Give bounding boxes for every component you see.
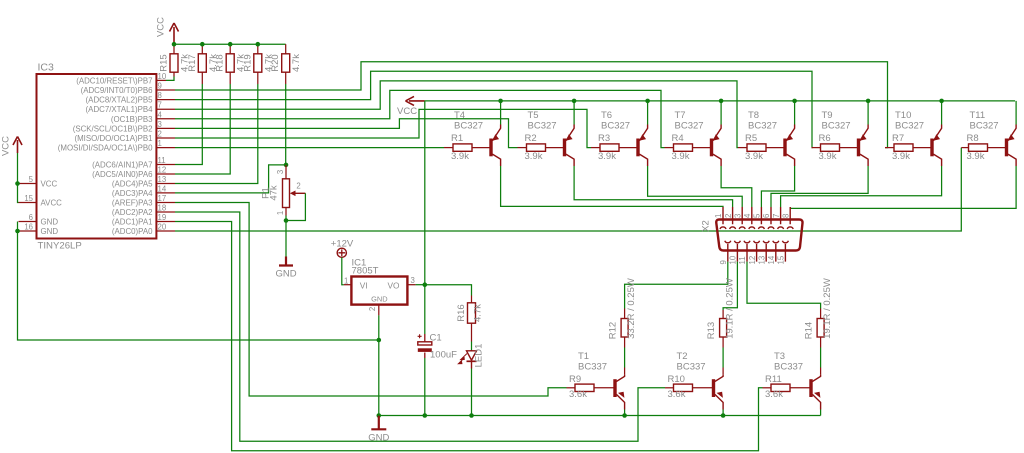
- svg-text:R2: R2: [525, 133, 537, 144]
- svg-text:R13: R13: [706, 322, 717, 339]
- svg-text:8: 8: [158, 91, 162, 100]
- svg-text:12: 12: [158, 166, 167, 175]
- resistor R16 bottom pin: [471, 323, 473, 341]
- svg-text:2: 2: [368, 307, 377, 311]
- pin 11 stub PA7: [156, 164, 175, 166]
- resistor R19 bottom pin: [257, 72, 259, 84]
- pin 7 stub PB4: [156, 108, 175, 110]
- svg-text:3.6k: 3.6k: [765, 389, 783, 400]
- resistor R13 body: [720, 319, 727, 338]
- svg-text:4.7k: 4.7k: [291, 54, 302, 72]
- wire VO node to R16: [425, 285, 472, 296]
- svg-text:2: 2: [296, 182, 300, 191]
- junction VO node: [423, 282, 428, 287]
- pin 6 stub GND: [19, 221, 37, 223]
- svg-text:BC327: BC327: [601, 121, 630, 132]
- svg-text:TINY26LP: TINY26LP: [38, 241, 82, 252]
- pin 14 stub PA4: [156, 192, 175, 194]
- resistor R1 3.9k: [453, 144, 472, 151]
- svg-text:VCC: VCC: [156, 17, 167, 37]
- svg-text:3.9k: 3.9k: [672, 151, 690, 162]
- wire IC1 GND down: [378, 315, 380, 415]
- transistor T10 BC327 base bar: [930, 139, 933, 157]
- svg-text:AVCC: AVCC: [41, 199, 63, 208]
- svg-text:T6: T6: [601, 110, 612, 121]
- svg-text:17: 17: [158, 194, 167, 203]
- resistor R14 bottom pin: [820, 337, 822, 348]
- svg-text:R8: R8: [967, 133, 979, 144]
- junction VCC rail at R17: [200, 42, 205, 47]
- wire VCC rail to T9 emitter: [867, 101, 869, 125]
- resistor R17 top pin: [201, 44, 203, 54]
- transistor T7 BC327 base bar: [710, 139, 713, 157]
- wire VCC arrow to pin5: [17, 153, 19, 184]
- svg-text:5: 5: [753, 213, 762, 218]
- wire VCC feed from 7805 VO up to rail: [424, 101, 426, 285]
- transistor T2 BC337 base bar: [712, 379, 715, 397]
- svg-text:(ADC9/INT0/T0)PB6: (ADC9/INT0/T0)PB6: [81, 86, 154, 95]
- transistor T1 collector diagonal: [616, 375, 624, 382]
- svg-text:T5: T5: [528, 110, 539, 121]
- wire T10 collector to X2 pin 7: [781, 166, 942, 207]
- transistor T1 emitter diagonal: [616, 394, 624, 409]
- svg-text:19.1R / 0.25W: 19.1R / 0.25W: [822, 278, 833, 339]
- potentiometer P1 pin 3: [285, 165, 287, 179]
- wire T9 collector to X2 pin 6: [771, 166, 868, 207]
- resistor R8 left pin: [961, 147, 968, 149]
- svg-text:T11: T11: [970, 110, 986, 121]
- junction node PA4 at P1 pin3: [284, 163, 289, 168]
- resistor R15 top pin: [173, 44, 175, 54]
- resistor R2 3.9k: [527, 144, 546, 151]
- wire net PB2 to R2: [175, 119, 518, 148]
- svg-text:15: 15: [24, 194, 33, 203]
- svg-text:R19: R19: [242, 54, 253, 71]
- capacitor C1 100uF polarized: [424, 334, 426, 358]
- wire X2 pin 9 to R12: [625, 262, 728, 309]
- resistor R6 left pin: [812, 147, 821, 149]
- wire ground rail: [379, 415, 821, 417]
- svg-text:R5: R5: [745, 133, 757, 144]
- svg-text:(ADC4)PA5: (ADC4)PA5: [112, 180, 153, 189]
- wire VCC rail to T7 emitter: [720, 101, 722, 125]
- resistor R7 left pin: [885, 147, 894, 149]
- pin 12 stub PA6: [156, 173, 175, 175]
- svg-text:(ADC6/AIN1)PA7: (ADC6/AIN1)PA7: [92, 161, 152, 170]
- svg-text:1: 1: [158, 139, 162, 148]
- svg-text:(ADC8/XTAL2)PB5: (ADC8/XTAL2)PB5: [86, 96, 154, 105]
- svg-text:BC327: BC327: [454, 121, 483, 132]
- potentiometer P1 pin 1: [285, 208, 287, 216]
- resistor R6 3.9k: [821, 144, 840, 151]
- transistor T9 emitter: [860, 125, 868, 141]
- svg-text:3.9k: 3.9k: [892, 151, 910, 162]
- svg-text:R12: R12: [607, 322, 618, 339]
- wire T2 emitter to ground rail: [722, 410, 724, 416]
- potentiometer P1 wiper arrow pin 2: [293, 192, 306, 194]
- supply +12V symbol: [337, 248, 346, 257]
- svg-text:LED1: LED1: [474, 344, 485, 368]
- wire net PB0 to R1: [175, 147, 444, 149]
- svg-text:X2: X2: [701, 220, 712, 232]
- resistor R18 bottom pin: [229, 72, 231, 84]
- junction P1 pin1: [284, 218, 289, 223]
- transistor T1 emitter arrow: [618, 392, 624, 398]
- junction ground rail at T2 emitter: [721, 413, 726, 418]
- transistor T5 collector: [566, 154, 574, 166]
- pin 2 stub PB1: [156, 137, 175, 139]
- LED1 emission arrows: [458, 354, 467, 364]
- resistor R17 4.7k: [198, 54, 206, 72]
- resistor R18 4.7k: [226, 54, 234, 72]
- resistor R17 bottom pin: [201, 72, 203, 84]
- connector X2 pin 15 contact: [782, 241, 788, 262]
- svg-text:18: 18: [158, 204, 167, 213]
- wire R10 to T2 collector chain: [722, 348, 724, 368]
- svg-text:(ADC1)PA1: (ADC1)PA1: [112, 218, 153, 227]
- svg-text:6: 6: [762, 214, 771, 218]
- transistor T3 collector pin: [820, 368, 822, 375]
- transistor T1 BC337 base bar: [613, 379, 616, 397]
- svg-text:(ADC0)PA0: (ADC0)PA0: [112, 227, 153, 236]
- junction VCC rail at T7 emitter: [719, 99, 724, 104]
- junction ground rail at IC1 GND: [377, 413, 382, 418]
- svg-text:3.9k: 3.9k: [745, 151, 763, 162]
- svg-text:1: 1: [344, 277, 348, 286]
- wire VCC rail to T5 emitter: [573, 101, 575, 125]
- svg-text:R18: R18: [215, 54, 226, 71]
- svg-text:(ADC3)PA4: (ADC3)PA4: [112, 189, 153, 198]
- svg-text:R15: R15: [159, 54, 170, 71]
- voltage regulator IC1 7805T box: [351, 277, 407, 305]
- svg-text:3: 3: [158, 120, 162, 129]
- svg-text:GND: GND: [41, 218, 59, 227]
- svg-text:3.9k: 3.9k: [525, 151, 543, 162]
- svg-text:1: 1: [714, 214, 723, 218]
- svg-text:R16: R16: [456, 304, 467, 321]
- wire R15 to PB7 pin 10: [166, 77, 174, 81]
- svg-text:(AREF)PA3: (AREF)PA3: [112, 199, 153, 208]
- svg-text:T7: T7: [675, 110, 686, 121]
- transistor T5 BC327 base bar: [563, 139, 566, 157]
- connector X2 pin 9 contact: [725, 241, 731, 262]
- svg-text:R17: R17: [187, 54, 198, 71]
- connector X2 pin 1 contact: [720, 207, 726, 229]
- wire VO node to C1: [424, 285, 426, 334]
- supply VCC symbol (arrow pointing left at rail): [406, 96, 425, 105]
- IC1 pin 2 GND stub: [378, 305, 380, 316]
- resistor R1 left pin: [444, 147, 453, 149]
- junction VCC rail at T8 emitter: [792, 99, 797, 104]
- wire VCC rail to T10 emitter: [941, 101, 943, 125]
- svg-text:R1: R1: [451, 133, 463, 144]
- ground symbol at P1: [279, 257, 293, 266]
- svg-text:R14: R14: [803, 322, 814, 339]
- wire +12V to IC1 VI: [342, 257, 344, 284]
- resistor R20 top pin: [285, 44, 287, 54]
- svg-text:10: 10: [158, 72, 167, 81]
- supply VCC symbol (top): [170, 23, 179, 44]
- wire R18 to PA6 pin 12: [175, 84, 230, 174]
- transistor T1 base pin: [594, 387, 614, 389]
- connector X2 DB15 outline: [716, 220, 802, 251]
- junction VCC rail at R18: [228, 42, 233, 47]
- wire GND pin6 to pin16: [17, 222, 19, 232]
- svg-text:GND: GND: [368, 433, 389, 444]
- pin 19 stub PA1: [156, 221, 175, 223]
- svg-text:2: 2: [158, 130, 162, 139]
- potentiometer P1 47k body: [283, 179, 290, 208]
- svg-text:(OC1B)PB3: (OC1B)PB3: [111, 115, 153, 124]
- wire T3 emitter to ground rail: [820, 410, 822, 416]
- transistor T9 collector: [860, 154, 868, 166]
- svg-text:R3: R3: [598, 133, 610, 144]
- svg-text:BC327: BC327: [822, 121, 851, 132]
- pin 18 stub PA2: [156, 211, 175, 213]
- svg-text:(SCK/SCL/OC1B\)PB2: (SCK/SCL/OC1B\)PB2: [73, 124, 153, 133]
- wire P1 pin1 short: [285, 216, 287, 221]
- svg-text:3.6k: 3.6k: [668, 389, 686, 400]
- pin 5 stub VCC: [19, 183, 37, 185]
- svg-text:13: 13: [757, 256, 766, 265]
- wire T8 collector to X2 pin 5: [761, 166, 794, 207]
- wire T5 collector to X2 pin 2: [574, 166, 733, 207]
- transistor T2 emitter diagonal: [715, 394, 723, 409]
- svg-text:3: 3: [276, 170, 285, 174]
- transistor T11 collector: [1008, 154, 1016, 166]
- resistor R8 3.9k: [969, 144, 988, 151]
- ground symbol at IC1: [371, 416, 386, 430]
- svg-text:BC337: BC337: [677, 361, 706, 372]
- connector X2 pin 7 contact: [778, 207, 784, 229]
- svg-text:7: 7: [772, 214, 781, 218]
- resistor R16 4.7k: [468, 303, 476, 323]
- svg-text:4.7k: 4.7k: [473, 304, 484, 322]
- resistor R13 top pin: [722, 310, 724, 319]
- svg-text:4: 4: [158, 110, 163, 119]
- transistor T4 emitter arrow: [493, 134, 500, 140]
- resistor R14 top pin: [820, 309, 822, 319]
- svg-text:(MISO/DO/OC1A)PB1: (MISO/DO/OC1A)PB1: [74, 134, 152, 143]
- svg-text:BC337: BC337: [578, 361, 607, 372]
- transistor T3 emitter diagonal: [812, 394, 820, 409]
- transistor T6 base pin: [619, 147, 637, 149]
- svg-text:R7: R7: [892, 133, 904, 144]
- transistor T11 base pin: [988, 147, 1006, 149]
- wire IC GND down and right to 7805 GND: [18, 231, 379, 340]
- junction VCC rail at T6 emitter: [645, 99, 650, 104]
- pin 10 stub PB7: [156, 79, 166, 81]
- resistor R11 3.6k: [771, 384, 790, 391]
- svg-text:R20: R20: [270, 54, 281, 71]
- resistor R3 3.9k: [600, 144, 619, 151]
- wire P1 wiper to pin 1: [286, 193, 305, 220]
- resistor R14 body: [817, 319, 824, 338]
- connector X2 pin 6 contact: [768, 207, 774, 229]
- wire net PB6 to R7: [175, 62, 888, 148]
- svg-text:R11: R11: [765, 374, 782, 385]
- connector X2 pin 10 contact: [734, 241, 740, 262]
- junction VCC rail at T4 emitter: [498, 99, 503, 104]
- svg-text:100uF: 100uF: [430, 350, 457, 361]
- pin 4 stub PB3: [156, 118, 175, 120]
- transistor T10 emitter arrow: [934, 134, 941, 140]
- pin 15 stub AVCC: [19, 202, 37, 204]
- resistor R4 3.9k: [674, 144, 693, 151]
- svg-text:13: 13: [158, 175, 167, 184]
- svg-text:(ADC5/AIN0)PA6: (ADC5/AIN0)PA6: [92, 170, 153, 179]
- pin 8 stub PB5: [156, 99, 175, 101]
- transistor T1 collector pin: [624, 368, 626, 375]
- svg-text:BC327: BC327: [528, 121, 557, 132]
- pin 20 stub PA0: [156, 230, 175, 232]
- resistor R9 3.6k: [575, 384, 594, 391]
- transistor T6 emitter arrow: [640, 134, 647, 140]
- transistor T11 emitter arrow: [1008, 134, 1015, 140]
- resistor R19 4.7k: [254, 54, 262, 72]
- wire net PA2 to R10: [175, 212, 665, 441]
- wire R20 down to node PA4: [285, 84, 287, 165]
- transistor T7 emitter: [713, 125, 721, 141]
- transistor T10 emitter: [933, 125, 941, 141]
- svg-text:GND: GND: [275, 269, 296, 280]
- IC1 pin 3 VO stub: [407, 284, 415, 286]
- svg-text:11: 11: [158, 156, 166, 165]
- transistor T8 emitter: [786, 125, 794, 141]
- svg-text:R4: R4: [672, 133, 684, 144]
- svg-text:VCC: VCC: [1, 136, 12, 156]
- wire VCC rail to T6 emitter: [647, 101, 649, 125]
- wire VO stub to node: [416, 284, 425, 286]
- connector X2 pin 5 contact: [758, 207, 764, 229]
- wire top VCC rail: [174, 43, 286, 45]
- svg-text:3.9k: 3.9k: [451, 151, 469, 162]
- svg-text:GND: GND: [371, 295, 387, 304]
- wire VCC rail to T8 emitter: [794, 101, 796, 125]
- wire net PA3 to R9: [175, 203, 567, 397]
- svg-text:BC337: BC337: [774, 361, 803, 372]
- svg-text:(ADC10/RESET\)PB7: (ADC10/RESET\)PB7: [76, 76, 152, 85]
- wire T1 emitter to ground rail: [624, 410, 626, 416]
- svg-text:11: 11: [738, 256, 747, 264]
- svg-text:9: 9: [719, 260, 728, 264]
- svg-text:VO: VO: [388, 281, 401, 291]
- svg-text:16: 16: [24, 223, 33, 232]
- svg-text:3.9k: 3.9k: [598, 151, 616, 162]
- junction ground rail at C1: [423, 413, 428, 418]
- transistor T7 base pin: [693, 147, 711, 149]
- wire R19 to PA5 pin 13: [175, 84, 258, 184]
- LED LED1: [467, 351, 477, 360]
- junction VCC rail at T9 emitter: [866, 99, 871, 104]
- transistor T5 emitter arrow: [566, 134, 573, 140]
- transistor T9 BC327 base bar: [857, 139, 860, 157]
- transistor T4 emitter: [492, 125, 500, 141]
- transistor T2 base pin: [693, 387, 713, 389]
- svg-text:BC327: BC327: [895, 121, 924, 132]
- wire net PB5 to R6: [175, 71, 812, 147]
- supply VCC symbol (left): [13, 137, 22, 154]
- resistor R5 left pin: [738, 147, 747, 149]
- svg-text:R6: R6: [819, 133, 831, 144]
- transistor T8 collector: [786, 154, 794, 166]
- svg-text:VI: VI: [360, 281, 368, 291]
- svg-text:C1: C1: [430, 333, 442, 344]
- connector X2 pin 4 contact: [749, 207, 755, 229]
- IC IC3 TINY26LP body: [37, 74, 157, 239]
- transistor T8 BC327 base bar: [783, 139, 786, 157]
- transistor T5 base pin: [546, 147, 564, 149]
- svg-text:GND: GND: [41, 227, 59, 236]
- svg-text:VCC: VCC: [397, 106, 417, 117]
- transistor T6 BC327 base bar: [636, 139, 639, 157]
- wire T11 collector to X2 pin 8: [790, 166, 1016, 208]
- wire net PA1 to R11: [175, 222, 763, 451]
- pin 13 stub PA5: [156, 183, 175, 185]
- wire VCC rail: [425, 100, 1015, 102]
- transistor T4 BC327 base bar: [489, 139, 492, 157]
- transistor T11 emitter: [1008, 125, 1016, 141]
- connector X2 pin 3 contact: [739, 207, 745, 229]
- wire net PB1 to R3: [175, 109, 591, 147]
- transistor T3 base pin: [790, 387, 810, 389]
- svg-text:33.2R / 0.25W: 33.2R / 0.25W: [626, 278, 637, 339]
- svg-text:20: 20: [158, 223, 167, 232]
- pin 3 stub PB2: [156, 127, 175, 129]
- wire net PB4 to R5: [175, 81, 738, 148]
- resistor R4 left pin: [665, 147, 674, 149]
- transistor T6 collector: [639, 154, 647, 166]
- wire C1 to ground rail: [424, 358, 426, 416]
- resistor R19 top pin: [257, 44, 259, 54]
- svg-text:14: 14: [158, 184, 167, 193]
- wire VCC rail to T4 emitter: [500, 101, 502, 125]
- svg-text:BC327: BC327: [970, 121, 999, 132]
- IC1 pin 1 VI stub: [344, 284, 352, 286]
- svg-text:19: 19: [158, 213, 167, 222]
- svg-text:9: 9: [158, 82, 162, 91]
- resistor R2 left pin: [518, 147, 527, 149]
- wire T4 collector to X2 pin 1: [501, 166, 723, 207]
- transistor T5 emitter: [566, 125, 574, 141]
- transistor T2 collector pin: [722, 368, 724, 375]
- svg-text:R9: R9: [569, 374, 581, 385]
- wire LED1 to ground rail: [471, 369, 473, 416]
- resistor R10 left pin: [665, 387, 674, 389]
- resistor R20 bottom pin: [285, 72, 287, 84]
- resistor R5 3.9k: [747, 144, 766, 151]
- wire R16 to LED1: [471, 342, 473, 351]
- connector X2 pin 13 contact: [763, 241, 769, 262]
- transistor T8 base pin: [766, 147, 784, 149]
- svg-text:BC327: BC327: [675, 121, 704, 132]
- transistor T9 base pin: [840, 147, 858, 149]
- svg-text:+12V: +12V: [331, 239, 354, 250]
- wire R17 to PA7 pin 11: [175, 84, 202, 165]
- junction VCC rail at R19: [255, 42, 260, 47]
- wire PA4 pin 14 staircase to P1: [175, 165, 286, 193]
- resistor R20 4.7k: [282, 54, 290, 72]
- svg-text:(ADC7/XTAL1)PB4: (ADC7/XTAL1)PB4: [86, 105, 154, 114]
- connector X2 pin 14 contact: [773, 241, 779, 262]
- svg-text:14: 14: [767, 255, 776, 264]
- wire X2 pin 11 to R14: [747, 262, 821, 309]
- resistor R12 top pin: [624, 309, 626, 319]
- resistor R3 left pin: [591, 147, 600, 149]
- resistor R18 top pin: [229, 44, 231, 54]
- resistor R13 bottom pin: [722, 337, 724, 348]
- junction ground rail at T1 emitter: [622, 413, 627, 418]
